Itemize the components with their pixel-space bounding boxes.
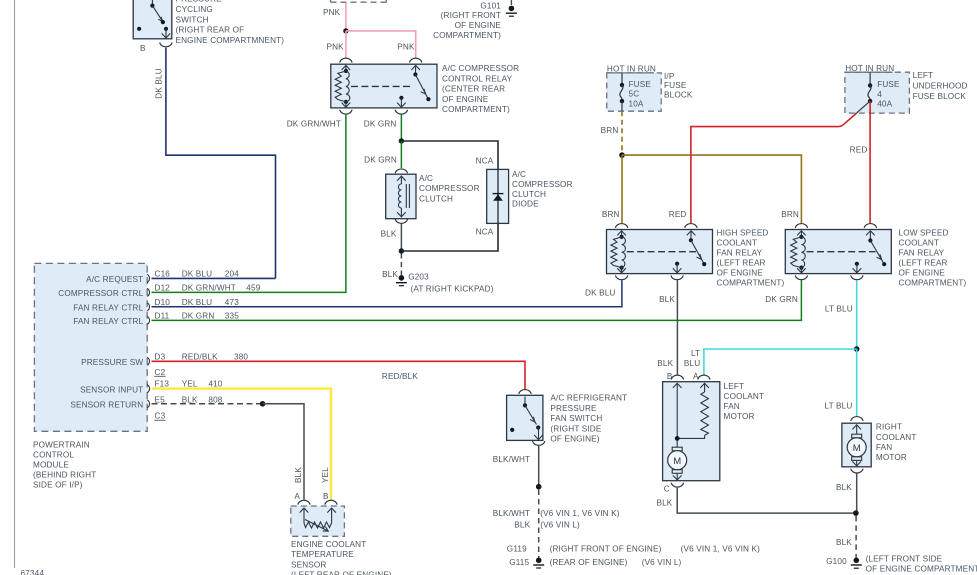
- svg-text:TEMPERATURE: TEMPERATURE: [291, 550, 354, 559]
- svg-text:BLK: BLK: [514, 521, 530, 530]
- junction node LT BLU splice: [854, 346, 860, 352]
- svg-text:COMPARTMENT): COMPARTMENT): [433, 31, 501, 40]
- svg-text:A: A: [294, 492, 300, 501]
- connector arc at ECT sensor A: [298, 500, 310, 504]
- label: RIGHT COOLANT FAN MOTOR: [876, 423, 917, 463]
- svg-text:(LEFT REAR: (LEFT REAR: [899, 259, 948, 268]
- svg-text:(LEFT REAR: (LEFT REAR: [717, 259, 766, 268]
- pin label D10, wire label DK BLU 473: [155, 298, 240, 307]
- svg-text:PRESSURE: PRESSURE: [550, 404, 597, 413]
- wire PNK (junction to relay K1 coil 86): [345, 31, 347, 58]
- label: PRESSURE CYCLING SWITCH (RIGHT REAR OF ENGINE COMPARTMNENT): [176, 0, 285, 45]
- svg-text:(LEFT FRONT SIDE: (LEFT FRONT SIDE: [866, 554, 943, 563]
- relay K2 high speed coolant fan relay: [607, 230, 713, 274]
- pin label D11, wire label DK GRN 335: [155, 312, 240, 321]
- wire BLK (right motor to ground splice): [856, 474, 858, 514]
- connector arc at K1 coil bottom: [340, 110, 352, 114]
- svg-text:(LEFT REAR OF ENGINE): (LEFT REAR OF ENGINE): [291, 571, 392, 575]
- svg-text:SENSOR RETURN: SENSOR RETURN: [70, 400, 143, 409]
- label: ENGINE COOLANT TEMPERATURE SENSOR (LEFT REAR OF ENGINE): [291, 540, 392, 575]
- wire BLK (splice to ECT sensor A): [263, 404, 304, 500]
- svg-text:(V6 VIN L): (V6 VIN L): [642, 558, 682, 567]
- svg-text:HOT IN RUN: HOT IN RUN: [607, 64, 656, 73]
- svg-text:CONTROL: CONTROL: [33, 451, 74, 460]
- wire DK BLU 473 (K2 coil to PCM D10): [152, 280, 622, 306]
- svg-text:COMPARTMENT): COMPARTMENT): [442, 105, 510, 114]
- fuse 5C 10A: [620, 73, 624, 111]
- svg-text:C: C: [664, 484, 670, 493]
- svg-text:LT BLU: LT BLU: [825, 304, 853, 313]
- svg-text:DK GRN/WHT: DK GRN/WHT: [287, 120, 341, 129]
- svg-text:DK GRN/WHT: DK GRN/WHT: [182, 284, 236, 293]
- label: HIGH SPEED COOLANT FAN RELAY (LEFT REAR OF ENGINE COMPARTMENT): [717, 228, 785, 287]
- svg-text:(V6 VIN L): (V6 VIN L): [540, 521, 580, 530]
- svg-text:(BEHIND RIGHT: (BEHIND RIGHT: [33, 471, 96, 480]
- wire F13 YEL 410 (PCM to ECT sensor B): [152, 389, 332, 500]
- svg-text:FAN RELAY CTRL: FAN RELAY CTRL: [73, 304, 143, 313]
- svg-text:10A: 10A: [629, 99, 644, 108]
- ground G203: [396, 275, 407, 286]
- wire D3 RED/BLK 380 (PCM to pressure fan switch): [152, 361, 526, 389]
- label: A/C COMPRESSOR CLUTCH: [419, 174, 480, 204]
- label: G100 (LEFT FRONT SIDE OF ENGINE COMPARTMENT: [826, 554, 977, 573]
- junction node (clutch/diode splice bottom): [399, 248, 404, 253]
- svg-text:OF ENGINE: OF ENGINE: [899, 269, 946, 278]
- wire PNK (fuse to junction): [345, 3, 347, 31]
- switch contacts in K1: [411, 65, 420, 70]
- svg-text:40A: 40A: [877, 100, 892, 109]
- relay K1 A/C compressor control relay: [331, 64, 437, 108]
- svg-text:(RIGHT FRONT: (RIGHT FRONT: [441, 11, 501, 20]
- svg-text:473: 473: [225, 298, 239, 307]
- svg-text:D3: D3: [155, 353, 166, 362]
- wire DK GRN (splice to clutch): [400, 141, 402, 168]
- svg-text:COOLANT: COOLANT: [876, 433, 917, 442]
- svg-text:PRESSURE SW: PRESSURE SW: [81, 358, 143, 367]
- pin D12 arc: [147, 288, 149, 296]
- wire to diode (top loop): [401, 141, 498, 169]
- coil of K1 (scallops): [346, 71, 350, 102]
- svg-text:BLU: BLU: [684, 359, 700, 368]
- label LT BLU (two lines): [684, 349, 700, 368]
- connector arc at K1 coil top: [340, 58, 352, 62]
- wire BLK dashed (splice to ground G100): [855, 516, 857, 558]
- svg-text:OF ENGINE: OF ENGINE: [455, 21, 502, 30]
- svg-text:G100: G100: [826, 557, 847, 566]
- svg-text:COOLANT: COOLANT: [717, 239, 758, 248]
- svg-text:4: 4: [877, 90, 882, 99]
- svg-text:B: B: [667, 372, 673, 381]
- svg-text:BLK: BLK: [659, 295, 675, 304]
- svg-text:BRN: BRN: [601, 126, 619, 135]
- svg-text:CLUTCH: CLUTCH: [419, 194, 453, 203]
- junction node BRN splice: [619, 152, 625, 158]
- connector arc at K1 switch top: [410, 58, 422, 62]
- label: A/C COMPRESSOR CONTROL RELAY (CENTER REAR OF ENGINE COMPARTMENT): [442, 64, 519, 114]
- wire PNK (junction to relay K1 switch 30): [346, 31, 416, 58]
- wire LT BLU (splice to left fan motor A): [704, 349, 857, 375]
- dashed link coil to switch in K3: [807, 251, 876, 253]
- connector arc at K3 switch top: [864, 224, 876, 228]
- resistor element beside coil of K3 (zigzag): [791, 237, 802, 268]
- svg-text:A/C COMPRESSOR: A/C COMPRESSOR: [442, 64, 519, 73]
- svg-text:PNK: PNK: [397, 43, 415, 52]
- wire DK BLU (S1 pin B to PCM C16): [166, 48, 276, 279]
- label: A/C REFRIGERANT PRESSURE FAN SWITCH (RIGHT SIDE OF ENGINE): [550, 394, 627, 444]
- connector arc at K2 coil bottom: [615, 275, 627, 279]
- wire LT BLU (K3 switch output down): [856, 280, 858, 349]
- connector arc at K2 coil top: [615, 224, 627, 228]
- connector arc at left motor C: [671, 483, 683, 487]
- label: FUSE 5C 10A: [629, 80, 652, 109]
- wire BLK (K2 switch output to left fan motor B): [676, 280, 678, 375]
- connector arc at clutch bottom: [395, 219, 407, 223]
- label: POWERTRAIN CONTROL MODULE (BEHIND RIGHT SIDE OF I/P): [33, 441, 96, 490]
- connector arc at K2 switch output bottom: [671, 275, 683, 279]
- svg-text:MOTOR: MOTOR: [876, 453, 907, 462]
- svg-text:BLK: BLK: [836, 483, 852, 492]
- wire to diode (bottom loop): [401, 223, 498, 251]
- dashed link coil to switch in K2: [627, 251, 696, 253]
- connector label C3: [154, 412, 165, 421]
- svg-text:F13: F13: [155, 380, 170, 389]
- connector arc at left motor B: [671, 375, 683, 379]
- wire BRN dashed (fuse 5C to splice): [621, 111, 623, 153]
- svg-text:M: M: [853, 443, 861, 454]
- svg-text:SIDE OF I/P): SIDE OF I/P): [33, 481, 83, 490]
- svg-text:(CENTER REAR: (CENTER REAR: [442, 85, 505, 94]
- label: FUSE 4 40A: [877, 80, 900, 108]
- svg-text:RED/BLK: RED/BLK: [382, 372, 418, 381]
- svg-text:G115: G115: [509, 558, 529, 567]
- svg-text:OF ENGINE: OF ENGINE: [717, 269, 764, 278]
- svg-text:67344: 67344: [21, 569, 45, 575]
- svg-text:BLK: BLK: [656, 499, 672, 508]
- svg-text:POWERTRAIN: POWERTRAIN: [33, 441, 90, 450]
- switch S1 A/C pressure cycling switch: [133, 0, 172, 39]
- svg-text:(RIGHT REAR OF: (RIGHT REAR OF: [176, 26, 245, 35]
- connector arc at K2 switch top: [685, 224, 697, 228]
- svg-text:(REAR OF ENGINE): (REAR OF ENGINE): [550, 558, 628, 567]
- svg-text:SWITCH: SWITCH: [176, 15, 209, 24]
- connector arc at K3 coil top: [795, 224, 807, 228]
- label: LOW SPEED COOLANT FAN RELAY (LEFT REAR OF ENGINE COMPARTMENT): [899, 229, 967, 288]
- svg-text:YEL: YEL: [321, 467, 330, 483]
- dashed link coil to switch in K1: [351, 85, 410, 87]
- svg-text:CYCLING: CYCLING: [176, 5, 213, 14]
- wire DK GRN 335 (K3 coil to PCM D11): [152, 280, 802, 320]
- ground G115: [533, 558, 544, 569]
- junction node E5 splice: [260, 401, 266, 407]
- svg-text:BLK/WHT: BLK/WHT: [493, 509, 530, 518]
- label: LEFT UNDERHOOD FUSE BLOCK: [913, 71, 968, 101]
- svg-text:COMPRESSOR: COMPRESSOR: [419, 184, 480, 193]
- connector arc at right motor top: [851, 417, 863, 421]
- svg-text:FAN RELAY CTRL: FAN RELAY CTRL: [73, 317, 143, 326]
- svg-text:DK GRN: DK GRN: [364, 155, 397, 164]
- svg-text:DIODE: DIODE: [512, 200, 539, 209]
- pin D3 arc: [147, 357, 149, 365]
- thermistor zigzag: [304, 522, 332, 528]
- svg-text:NCA: NCA: [476, 227, 494, 236]
- label BLK (V6 VIN L): [514, 521, 580, 530]
- svg-text:RIGHT: RIGHT: [876, 423, 902, 432]
- svg-text:B: B: [140, 44, 146, 53]
- svg-text:PNK: PNK: [327, 43, 345, 52]
- fuse block box (cut off, top center): [331, 0, 387, 2]
- wire BLK dashed (splice to ground G203): [400, 254, 402, 277]
- svg-text:YEL: YEL: [182, 380, 198, 389]
- junction node PNK splice: [343, 28, 348, 33]
- pin label D3, wire label RED/BLK 380: [155, 353, 249, 362]
- label BLK/WHT (V6 VIN 1, V6 VIN K): [493, 509, 620, 518]
- connector arc at K3 coil bottom: [795, 275, 807, 279]
- wire E5 BLK 808 dashed (PCM to splice): [152, 403, 263, 405]
- svg-text:ENGINE COMPARTMNENT): ENGINE COMPARTMNENT): [176, 36, 285, 45]
- svg-text:BLK: BLK: [657, 359, 673, 368]
- coil of K2 (scallops): [622, 237, 626, 268]
- svg-text:LEFT: LEFT: [724, 382, 745, 391]
- wire BLK (left motor C to ground splice): [677, 488, 856, 513]
- switch contacts in K3: [866, 231, 875, 236]
- svg-text:FAN: FAN: [724, 402, 740, 411]
- svg-text:D12: D12: [155, 284, 171, 293]
- junction node (ground splice): [536, 484, 542, 490]
- svg-text:LOW SPEED: LOW SPEED: [899, 229, 949, 238]
- ground G119 label row: [507, 545, 760, 554]
- left underhood fuse block (dashed box): [845, 72, 910, 113]
- wire BLK (clutch to splice): [400, 224, 402, 251]
- svg-text:FUSE BLOCK: FUSE BLOCK: [913, 92, 967, 101]
- svg-text:(V6 VIN 1, V6 VIN K): (V6 VIN 1, V6 VIN K): [681, 545, 761, 554]
- label: I/P FUSE BLOCK: [664, 72, 693, 100]
- wire BLK/WHT (fan switch to splice): [538, 446, 540, 487]
- left coolant fan motor M1: [663, 382, 720, 481]
- svg-text:335: 335: [225, 312, 239, 321]
- coil of K3 (scallops): [801, 237, 805, 268]
- svg-text:FUSE: FUSE: [664, 81, 687, 90]
- pin label C16, wire label DK BLU 204: [155, 270, 240, 279]
- connector arc at K3 switch output bottom: [851, 275, 863, 279]
- junction node (clutch/diode splice top): [399, 138, 404, 143]
- resistor element beside coil of K2 (zigzag): [611, 237, 622, 268]
- svg-text:BRN: BRN: [781, 210, 799, 219]
- svg-text:SENSOR: SENSOR: [291, 560, 326, 569]
- svg-text:ENGINE COOLANT: ENGINE COOLANT: [291, 540, 366, 549]
- svg-text:FAN: FAN: [876, 443, 892, 452]
- svg-text:BLK: BLK: [382, 270, 398, 279]
- motor M symbol: [672, 447, 682, 451]
- svg-text:COMPRESSOR CTRL: COMPRESSOR CTRL: [58, 289, 143, 298]
- pin C16 arc: [147, 274, 149, 282]
- label: G203 (AT RIGHT KICKPAD): [408, 272, 493, 293]
- svg-text:RED/BLK: RED/BLK: [182, 353, 218, 362]
- ground G100: [851, 558, 862, 569]
- svg-text:G101: G101: [480, 1, 501, 10]
- svg-text:HIGH SPEED: HIGH SPEED: [717, 228, 769, 237]
- svg-text:FUSE: FUSE: [877, 80, 900, 89]
- svg-text:DK GRN: DK GRN: [765, 295, 798, 304]
- svg-text:DK BLU: DK BLU: [585, 289, 615, 298]
- svg-text:(RIGHT SIDE: (RIGHT SIDE: [550, 424, 601, 433]
- svg-text:DK GRN: DK GRN: [364, 120, 397, 129]
- relay K3 low speed coolant fan relay: [785, 230, 891, 274]
- svg-text:UNDERHOOD: UNDERHOOD: [913, 81, 968, 90]
- svg-text:BLK: BLK: [294, 467, 303, 483]
- svg-text:204: 204: [225, 270, 239, 279]
- svg-text:PRESSURE: PRESSURE: [176, 0, 223, 3]
- svg-text:5C: 5C: [629, 90, 640, 99]
- wire RED (fuse 4 to low speed relay switch): [869, 101, 871, 223]
- ECT engine coolant temperature sensor (dashed box): [291, 506, 345, 536]
- wire LT BLU (splice to right fan motor): [856, 349, 858, 416]
- svg-text:RED: RED: [669, 210, 687, 219]
- svg-text:MOTOR: MOTOR: [724, 412, 755, 421]
- wire BRN (splice to high speed relay coil): [621, 155, 623, 223]
- svg-text:LEFT: LEFT: [913, 71, 934, 80]
- I/P fuse block (dashed box): [607, 73, 662, 111]
- svg-text:DK BLU: DK BLU: [182, 270, 212, 279]
- switch contacts in K2: [687, 231, 696, 236]
- wire C16 DK BLU 204 (PCM to junction with S1 wire): [152, 277, 276, 279]
- svg-text:CLUTCH: CLUTCH: [512, 190, 546, 199]
- svg-text:MODULE: MODULE: [33, 461, 69, 470]
- diode D1 A/C compressor clutch diode: [487, 169, 509, 223]
- wire BLK/WHT dashed (splice to grounds G119/G115): [538, 490, 540, 559]
- connector arc at left motor A: [698, 375, 710, 379]
- svg-text:DK BLU: DK BLU: [182, 298, 212, 307]
- svg-text:FAN RELAY: FAN RELAY: [899, 249, 945, 258]
- PCM powertrain control module (dashed box): [34, 263, 147, 431]
- svg-text:B: B: [323, 492, 329, 501]
- junction node (resistor joins B line): [675, 436, 680, 441]
- svg-text:FAN SWITCH: FAN SWITCH: [550, 414, 602, 423]
- wire DK GRN/WHT 459 (K1 coil to PCM D12): [152, 115, 346, 293]
- ground G115 label row: [509, 558, 681, 567]
- svg-text:I/P: I/P: [664, 72, 675, 81]
- svg-text:D11: D11: [155, 312, 170, 321]
- svg-text:DK BLU: DK BLU: [155, 68, 164, 98]
- svg-text:C3: C3: [155, 412, 166, 421]
- label: A/C COMPRESSOR CLUTCH DIODE: [512, 170, 573, 209]
- svg-text:A/C: A/C: [512, 170, 526, 179]
- pin E5 arc: [147, 400, 149, 408]
- svg-text:A/C: A/C: [419, 174, 433, 183]
- connector arc at right motor bottom: [851, 469, 863, 473]
- right coolant fan motor M2: [842, 423, 871, 467]
- svg-text:(V6 VIN 1, V6 VIN K): (V6 VIN 1, V6 VIN K): [540, 509, 620, 518]
- svg-text:LT BLU: LT BLU: [824, 401, 852, 410]
- svg-text:459: 459: [246, 284, 260, 293]
- svg-text:CONTROL RELAY: CONTROL RELAY: [442, 74, 513, 83]
- svg-text:OF ENGINE: OF ENGINE: [442, 95, 489, 104]
- svg-text:A/C REFRIGERANT: A/C REFRIGERANT: [550, 394, 627, 403]
- svg-text:DK GRN: DK GRN: [182, 312, 215, 321]
- svg-text:BRN: BRN: [602, 210, 620, 219]
- ground G101: [506, 0, 517, 16]
- svg-text:OF ENGINE COMPARTMENT: OF ENGINE COMPARTMENT: [866, 565, 977, 574]
- svg-text:BLK/WHT: BLK/WHT: [493, 455, 530, 464]
- connector arc at clutch top: [395, 169, 407, 173]
- connector label C2: [154, 368, 165, 377]
- label: PCM interior pin functions: [58, 275, 143, 409]
- pin label F13, wire label YEL 410: [155, 380, 223, 389]
- svg-text:FUSE: FUSE: [629, 80, 652, 89]
- svg-text:NCA: NCA: [476, 157, 494, 166]
- label: G101 (RIGHT FRONT OF ENGINE COMPARTMENT): [433, 1, 501, 40]
- connector arc at K1 switch output bottom: [395, 110, 407, 114]
- pin D10 arc: [147, 303, 149, 311]
- fuse 4 40A: [857, 72, 873, 113]
- pin D11 arc: [147, 316, 149, 324]
- wire DK GRN (K1 switch output to splice): [400, 115, 402, 141]
- pin label E5, wire label BLK 808: [155, 395, 223, 404]
- svg-text:D10: D10: [155, 298, 171, 307]
- svg-text:RED: RED: [850, 145, 868, 154]
- A/C compressor clutch (coil with core): [386, 174, 416, 219]
- svg-text:COOLANT: COOLANT: [899, 239, 940, 248]
- pin label D12, wire label DK GRN/WHT 459: [155, 284, 261, 293]
- svg-text:410: 410: [208, 380, 222, 389]
- resistor R (fan motor internal, zigzag): [701, 392, 709, 436]
- svg-text:FAN RELAY: FAN RELAY: [717, 249, 763, 258]
- svg-text:COOLANT: COOLANT: [724, 392, 765, 401]
- svg-text:HOT IN RUN: HOT IN RUN: [845, 64, 894, 73]
- svg-text:LT: LT: [691, 349, 700, 358]
- svg-text:BLK: BLK: [381, 229, 397, 238]
- label: LEFT COOLANT FAN MOTOR: [724, 382, 765, 421]
- svg-text:M: M: [673, 456, 681, 467]
- wire BRN (splice to low speed relay coil): [622, 155, 801, 223]
- connector arc at ECT sensor B: [325, 500, 337, 504]
- svg-text:SENSOR INPUT: SENSOR INPUT: [80, 385, 143, 394]
- resistor element beside coil of K1 (zigzag): [335, 71, 346, 102]
- svg-text:BLK: BLK: [836, 538, 852, 547]
- svg-text:PNK: PNK: [323, 8, 341, 17]
- svg-text:A/C REQUEST: A/C REQUEST: [86, 275, 143, 284]
- svg-text:C16: C16: [155, 270, 171, 279]
- connector arc at fan switch top: [519, 390, 531, 394]
- svg-text:BLOCK: BLOCK: [664, 91, 693, 100]
- junction node (BLK ground splice): [853, 510, 859, 516]
- svg-text:380: 380: [234, 353, 248, 362]
- svg-text:COMPARTMENT): COMPARTMENT): [717, 279, 785, 288]
- svg-text:COMPRESSOR: COMPRESSOR: [512, 180, 573, 189]
- wire RED (fuse 4 to high speed relay switch): [691, 113, 857, 223]
- svg-text:OF ENGINE): OF ENGINE): [550, 435, 599, 444]
- switch S2 A/C refrigerant pressure fan switch: [507, 395, 543, 440]
- svg-text:G203: G203: [408, 272, 429, 281]
- svg-text:C2: C2: [155, 368, 166, 377]
- svg-text:(AT RIGHT KICKPAD): (AT RIGHT KICKPAD): [411, 284, 494, 293]
- pin F13 arc: [147, 385, 149, 393]
- connector arc at fan switch bottom: [533, 441, 545, 445]
- svg-text:COMPARTMENT): COMPARTMENT): [899, 279, 967, 288]
- svg-text:(RIGHT FRONT OF ENGINE): (RIGHT FRONT OF ENGINE): [550, 545, 662, 554]
- svg-text:G119: G119: [507, 545, 527, 554]
